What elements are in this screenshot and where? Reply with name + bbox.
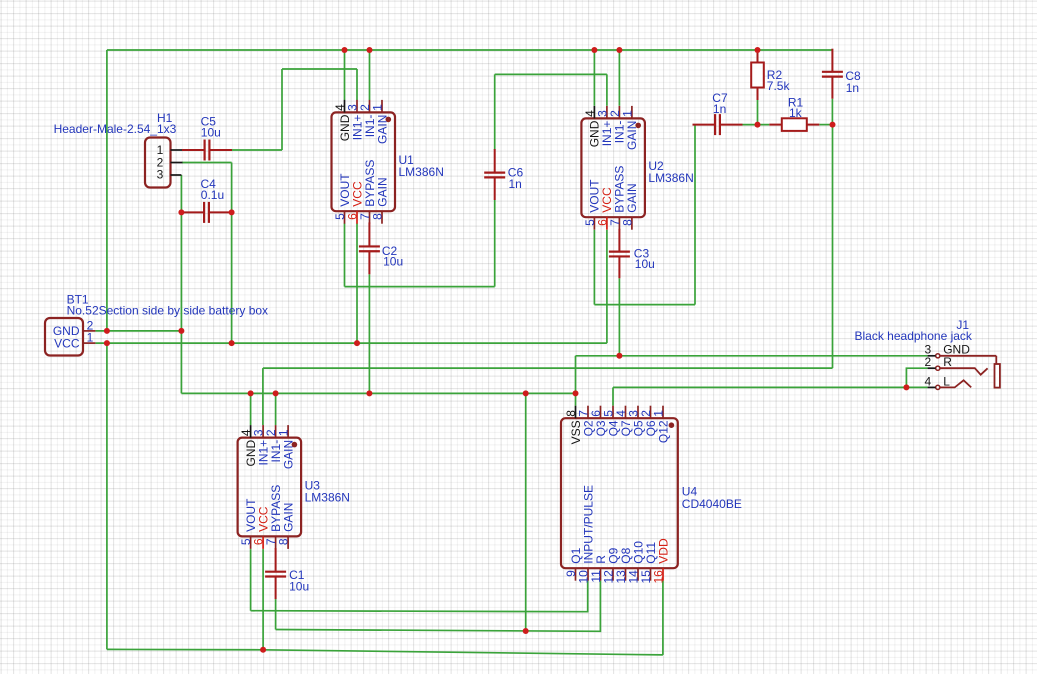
junction (104, 340, 110, 346)
svg-text:1k: 1k (789, 106, 803, 120)
wire GND left drop (106, 50, 108, 331)
wire R2 bottom (757, 100, 759, 125)
svg-text:LM386N: LM386N (399, 165, 444, 179)
svg-text:GAIN: GAIN (375, 115, 389, 144)
pin U3-1 (287, 425, 289, 438)
wire U1 pin5 down (344, 223, 346, 286)
pin H1-1 (171, 149, 183, 151)
pin J1-4 (928, 386, 936, 388)
wire VCC row B (95, 342, 607, 344)
svg-text:LM386N: LM386N (305, 490, 350, 504)
connector J1 headphone jack (936, 354, 1000, 390)
junction (229, 340, 235, 346)
wire VCC left drop (106, 343, 108, 649)
junction (591, 47, 597, 53)
svg-text:0.1u: 0.1u (201, 188, 224, 202)
svg-text:Header-Male-2.54_1x3: Header-Male-2.54_1x3 (54, 122, 177, 136)
capacitor C2 (359, 222, 380, 274)
battery BT1 body (45, 318, 83, 356)
junction (616, 47, 622, 53)
svg-text:1: 1 (371, 104, 385, 111)
pin U3-2 (275, 425, 277, 438)
svg-text:8: 8 (620, 219, 634, 226)
junction (755, 47, 761, 53)
svg-text:1n: 1n (509, 177, 522, 191)
wire U3 pin3 drop (262, 368, 264, 425)
junction (178, 209, 184, 215)
wire U4 pin8 riser (575, 356, 577, 406)
wire BT1 pin2 to GND net (95, 330, 181, 332)
wire U3 pin5 down (250, 549, 252, 611)
op-amp U1 body (332, 112, 396, 211)
counter U4 body (561, 418, 678, 568)
capacitor C3 (609, 229, 630, 278)
pin U4-7 (587, 406, 589, 419)
wire U2 out riser (694, 125, 696, 305)
capacitor C7 (693, 114, 743, 135)
capacitor C1 (265, 548, 286, 599)
svg-text:No.52Section side by side batt: No.52Section side by side battery box (67, 304, 268, 318)
wire U1 pin4 drop (344, 50, 346, 100)
pin U2-8 (631, 217, 633, 230)
svg-text:GAIN: GAIN (625, 183, 639, 212)
pin U2-1 (631, 106, 633, 119)
svg-text:VCC: VCC (54, 336, 80, 350)
svg-text:LM386N: LM386N (648, 171, 693, 185)
wire C7 to R1 (743, 124, 770, 126)
pin U4-11 (600, 568, 602, 581)
junction (260, 647, 266, 653)
svg-text:7.5k: 7.5k (767, 79, 791, 93)
junction (354, 340, 360, 346)
junction (104, 328, 110, 334)
pin U4-9 (575, 568, 577, 581)
capacitor C6 (484, 149, 505, 200)
wire U2 pin6 to VCC row (606, 230, 608, 343)
wire U3 pin2 drop (275, 393, 277, 425)
wire U1 out to C6 (345, 286, 495, 288)
svg-text:R: R (943, 355, 952, 369)
pin U3-5 (250, 536, 252, 549)
junction (755, 122, 761, 128)
pin BT1-1 (83, 342, 95, 344)
pin U1-1 (381, 100, 383, 113)
wire C5 riser (281, 69, 283, 150)
wire R1 to node (819, 124, 832, 126)
pin U4-14 (637, 568, 639, 581)
svg-text:GAIN: GAIN (281, 503, 295, 532)
wire C6 top (494, 74, 496, 150)
svg-text:10u: 10u (383, 255, 403, 269)
wire VCC bottom run (107, 649, 663, 655)
pin U1-4 (344, 100, 346, 113)
wire U2 pin2 drop (618, 50, 620, 106)
pin U1-2 (369, 100, 371, 113)
wire U1 pin3 drop (356, 69, 358, 100)
U3 pin1 mark (292, 442, 298, 448)
svg-text:1: 1 (652, 410, 666, 417)
pin U2-6 (606, 217, 608, 230)
junction (366, 390, 372, 396)
pin U4-3 (637, 406, 639, 419)
U1 pin1 mark (386, 117, 392, 123)
pin U1-6 (356, 211, 358, 224)
pin U2-2 (618, 106, 620, 119)
op-amp U3 body (238, 438, 302, 537)
wire C1 bottom (275, 599, 277, 629)
pin U4-8 (575, 406, 577, 419)
svg-text:4: 4 (924, 375, 931, 389)
pin U2-7 (618, 217, 620, 230)
capacitor C4 (181, 202, 231, 223)
svg-text:10u: 10u (635, 257, 655, 271)
pin U3-4 (250, 425, 252, 438)
junction (248, 390, 254, 396)
resistor R2 (751, 50, 764, 100)
resistor R1 (769, 118, 819, 131)
svg-text:GAIN: GAIN (375, 177, 389, 206)
svg-text:16: 16 (652, 570, 666, 584)
pin U3-6 (262, 536, 264, 549)
pin U1-7 (369, 211, 371, 224)
pin U1-8 (381, 211, 383, 224)
svg-text:3: 3 (157, 168, 164, 182)
wire feedback riser (832, 125, 834, 369)
U4 pin1 mark (669, 422, 675, 428)
svg-text:GAIN: GAIN (281, 440, 295, 469)
svg-text:10u: 10u (289, 580, 309, 594)
pin U4-12 (612, 568, 614, 581)
wire H1 pin3 down to GND row (180, 175, 182, 393)
wire U2 pin5 down (593, 230, 595, 305)
svg-text:8: 8 (371, 213, 385, 220)
pin U1-5 (344, 211, 346, 224)
wire GND row D (181, 392, 575, 394)
junction (273, 390, 279, 396)
pin U4-6 (600, 406, 602, 419)
junction (229, 209, 235, 215)
U2 pin1 mark (635, 123, 641, 129)
junction (903, 384, 909, 390)
wire row C feedback (263, 367, 833, 369)
wire C8 bottom (831, 99, 833, 125)
wire U3 pin6 down (262, 549, 264, 650)
pin H1-2 (171, 162, 183, 164)
svg-text:8: 8 (277, 538, 291, 545)
wire C6 bottom (494, 200, 496, 287)
pin U4-13 (625, 568, 627, 581)
capacitor C8 (822, 49, 843, 99)
wire C2 bottom to GND row (368, 274, 370, 393)
wire U3 pin4 drop (250, 393, 252, 425)
wire U1 pin2 drop (369, 50, 371, 100)
pin U2-4 (593, 106, 595, 119)
wire C5 right (232, 149, 282, 151)
pin U4-1 (662, 406, 664, 419)
pin U4-4 (625, 406, 627, 419)
pin J1-3 (928, 355, 936, 357)
svg-text:CD4040BE: CD4040BE (682, 497, 742, 511)
pin U3-7 (275, 536, 277, 549)
junction (178, 328, 184, 334)
pin U4-2 (650, 406, 652, 419)
pin U3-8 (287, 536, 289, 549)
junction (523, 390, 529, 396)
wire U4 pin16 riser (662, 581, 664, 655)
pin U1-3 (356, 100, 358, 113)
wire U2 out right (594, 304, 695, 306)
wire C4 right down to VCC row (231, 163, 233, 344)
pin U4-15 (650, 568, 652, 581)
pin U2-5 (593, 217, 595, 230)
svg-text:1: 1 (277, 429, 291, 436)
capacitor C5 (182, 140, 232, 161)
svg-text:VDD: VDD (656, 538, 670, 564)
wire GND top rail (107, 49, 833, 51)
pin H1-3 (171, 174, 182, 176)
pin U3-3 (262, 425, 264, 438)
svg-text:L: L (943, 375, 950, 389)
pin J1-2 (928, 367, 936, 369)
wire C3 bottom (618, 278, 620, 356)
wire U2 pin3 drop (606, 74, 608, 105)
svg-text:1n: 1n (713, 102, 726, 116)
pin U4-16 (662, 568, 664, 581)
pin BT1-2 (83, 330, 95, 332)
wire row F to J1 pin4 (613, 386, 928, 388)
svg-text:GAIN: GAIN (625, 121, 639, 150)
junction (367, 47, 373, 53)
pin U4-5 (612, 406, 614, 419)
junction (616, 353, 622, 359)
svg-text:Black headphone jack: Black headphone jack (855, 329, 973, 343)
op-amp U2 body (581, 118, 645, 217)
wire to U1 pin3 (282, 68, 357, 70)
svg-text:2: 2 (924, 355, 931, 369)
wire C6 to U2 pin3 (495, 73, 607, 75)
junction (830, 122, 836, 128)
svg-text:1: 1 (87, 331, 94, 345)
pin U4-10 (587, 568, 589, 581)
svg-text:Q12: Q12 (656, 420, 670, 443)
junction (573, 390, 579, 396)
junction (342, 47, 348, 53)
svg-text:1: 1 (620, 110, 634, 117)
wire U4 pin5 riser (612, 387, 614, 405)
wire row E to J1 pin3 (576, 355, 928, 357)
wire U2 pin4 drop (593, 50, 595, 106)
svg-text:10u: 10u (201, 126, 221, 140)
junction (523, 628, 529, 634)
wire GND to row I (525, 393, 527, 631)
wire J1 pin2 jog (906, 368, 927, 387)
connector H1 body (145, 138, 171, 188)
wire H1 pin2 right (182, 162, 232, 164)
wire U1 pin6 to VCC row (356, 223, 358, 343)
pin U2-3 (606, 106, 608, 119)
wire row I to U4 pin11 (276, 581, 601, 632)
wire row H to U4 pin10 (251, 581, 588, 612)
svg-text:1n: 1n (846, 81, 859, 95)
svg-text:INPUT/PULSE: INPUT/PULSE (581, 485, 595, 564)
